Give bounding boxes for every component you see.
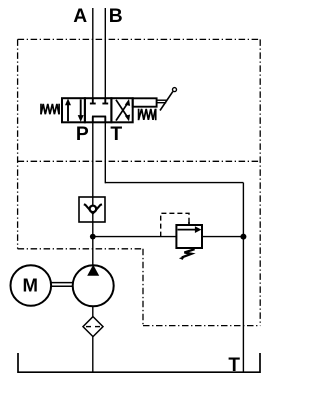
enclosure right edge (dash-dot) — [259, 39, 261, 325]
svg-text:B: B — [109, 6, 123, 27]
check valve seat — [84, 204, 102, 213]
filter F1 diamond — [83, 317, 103, 337]
tank reservoir — [18, 353, 260, 372]
wire A line — [92, 8, 94, 98]
relief valve RV1 body — [176, 225, 202, 248]
left box up arrow — [65, 99, 71, 122]
port label T — [110, 124, 122, 145]
port label A — [73, 6, 87, 27]
wire B line — [104, 8, 106, 98]
enclosure divider edge (dash-dot) — [18, 160, 260, 162]
pump P1 — [73, 265, 114, 306]
svg-text:T: T — [110, 124, 122, 145]
tank label T — [228, 355, 240, 376]
electric motor M1 — [11, 265, 52, 306]
relief valve RV1 top stub — [188, 222, 190, 226]
left return spring — [41, 104, 59, 115]
relief valve adjustable spring — [179, 249, 195, 260]
filter element dashes — [86, 326, 100, 328]
node P branch junction — [90, 234, 96, 240]
wire T line horizontal to right — [105, 182, 243, 184]
pump outlet triangle — [87, 265, 99, 276]
enclosure top edge (dash-dot) — [18, 38, 261, 40]
wire T line below valve — [104, 122, 106, 183]
port label P — [76, 124, 89, 145]
check valve internal line — [92, 197, 94, 222]
wire filter to tank — [92, 337, 94, 373]
check valve CV1 box — [79, 197, 105, 222]
svg-text:M: M — [23, 274, 39, 295]
drive shaft coupling — [51, 283, 73, 287]
pilot line (dashed) — [161, 213, 189, 236]
check valve ball — [90, 206, 97, 213]
wire P line valve to check valve — [92, 122, 94, 197]
wire T return right vertical — [242, 183, 244, 373]
center box blocked port A — [90, 98, 96, 103]
port label B — [109, 6, 123, 27]
wire P line check valve to pump — [92, 222, 94, 266]
center box P-T bypass — [92, 117, 106, 123]
relief valve internal arrow — [178, 226, 202, 233]
right box crossed arrow down — [116, 100, 130, 122]
valve V1 center position box — [85, 98, 112, 122]
wire branch to relief valve — [93, 236, 177, 238]
lever actuator box — [133, 98, 157, 106]
center box blocked port B — [102, 98, 108, 103]
wire pump to filter — [92, 306, 94, 317]
lever arm and knob — [157, 88, 177, 111]
motor label M — [23, 274, 39, 295]
enclosure lower-left edge (dash-dot) — [18, 248, 143, 250]
svg-text:A: A — [73, 6, 87, 27]
valve V1 left position box — [62, 98, 85, 122]
wire relief valve to T line — [202, 236, 243, 238]
node T line junction — [240, 234, 246, 240]
enclosure step vertical (dash-dot) — [142, 249, 144, 326]
svg-text:T: T — [228, 355, 240, 376]
right box crossed arrow up — [116, 99, 130, 121]
svg-text:P: P — [76, 124, 89, 145]
right return spring — [139, 109, 156, 121]
enclosure bottom edge (dash-dot) — [143, 325, 260, 327]
enclosure left edge (dash-dot) — [17, 39, 19, 248]
left box down arrow — [78, 99, 84, 122]
valve V1 right position box — [111, 98, 132, 122]
